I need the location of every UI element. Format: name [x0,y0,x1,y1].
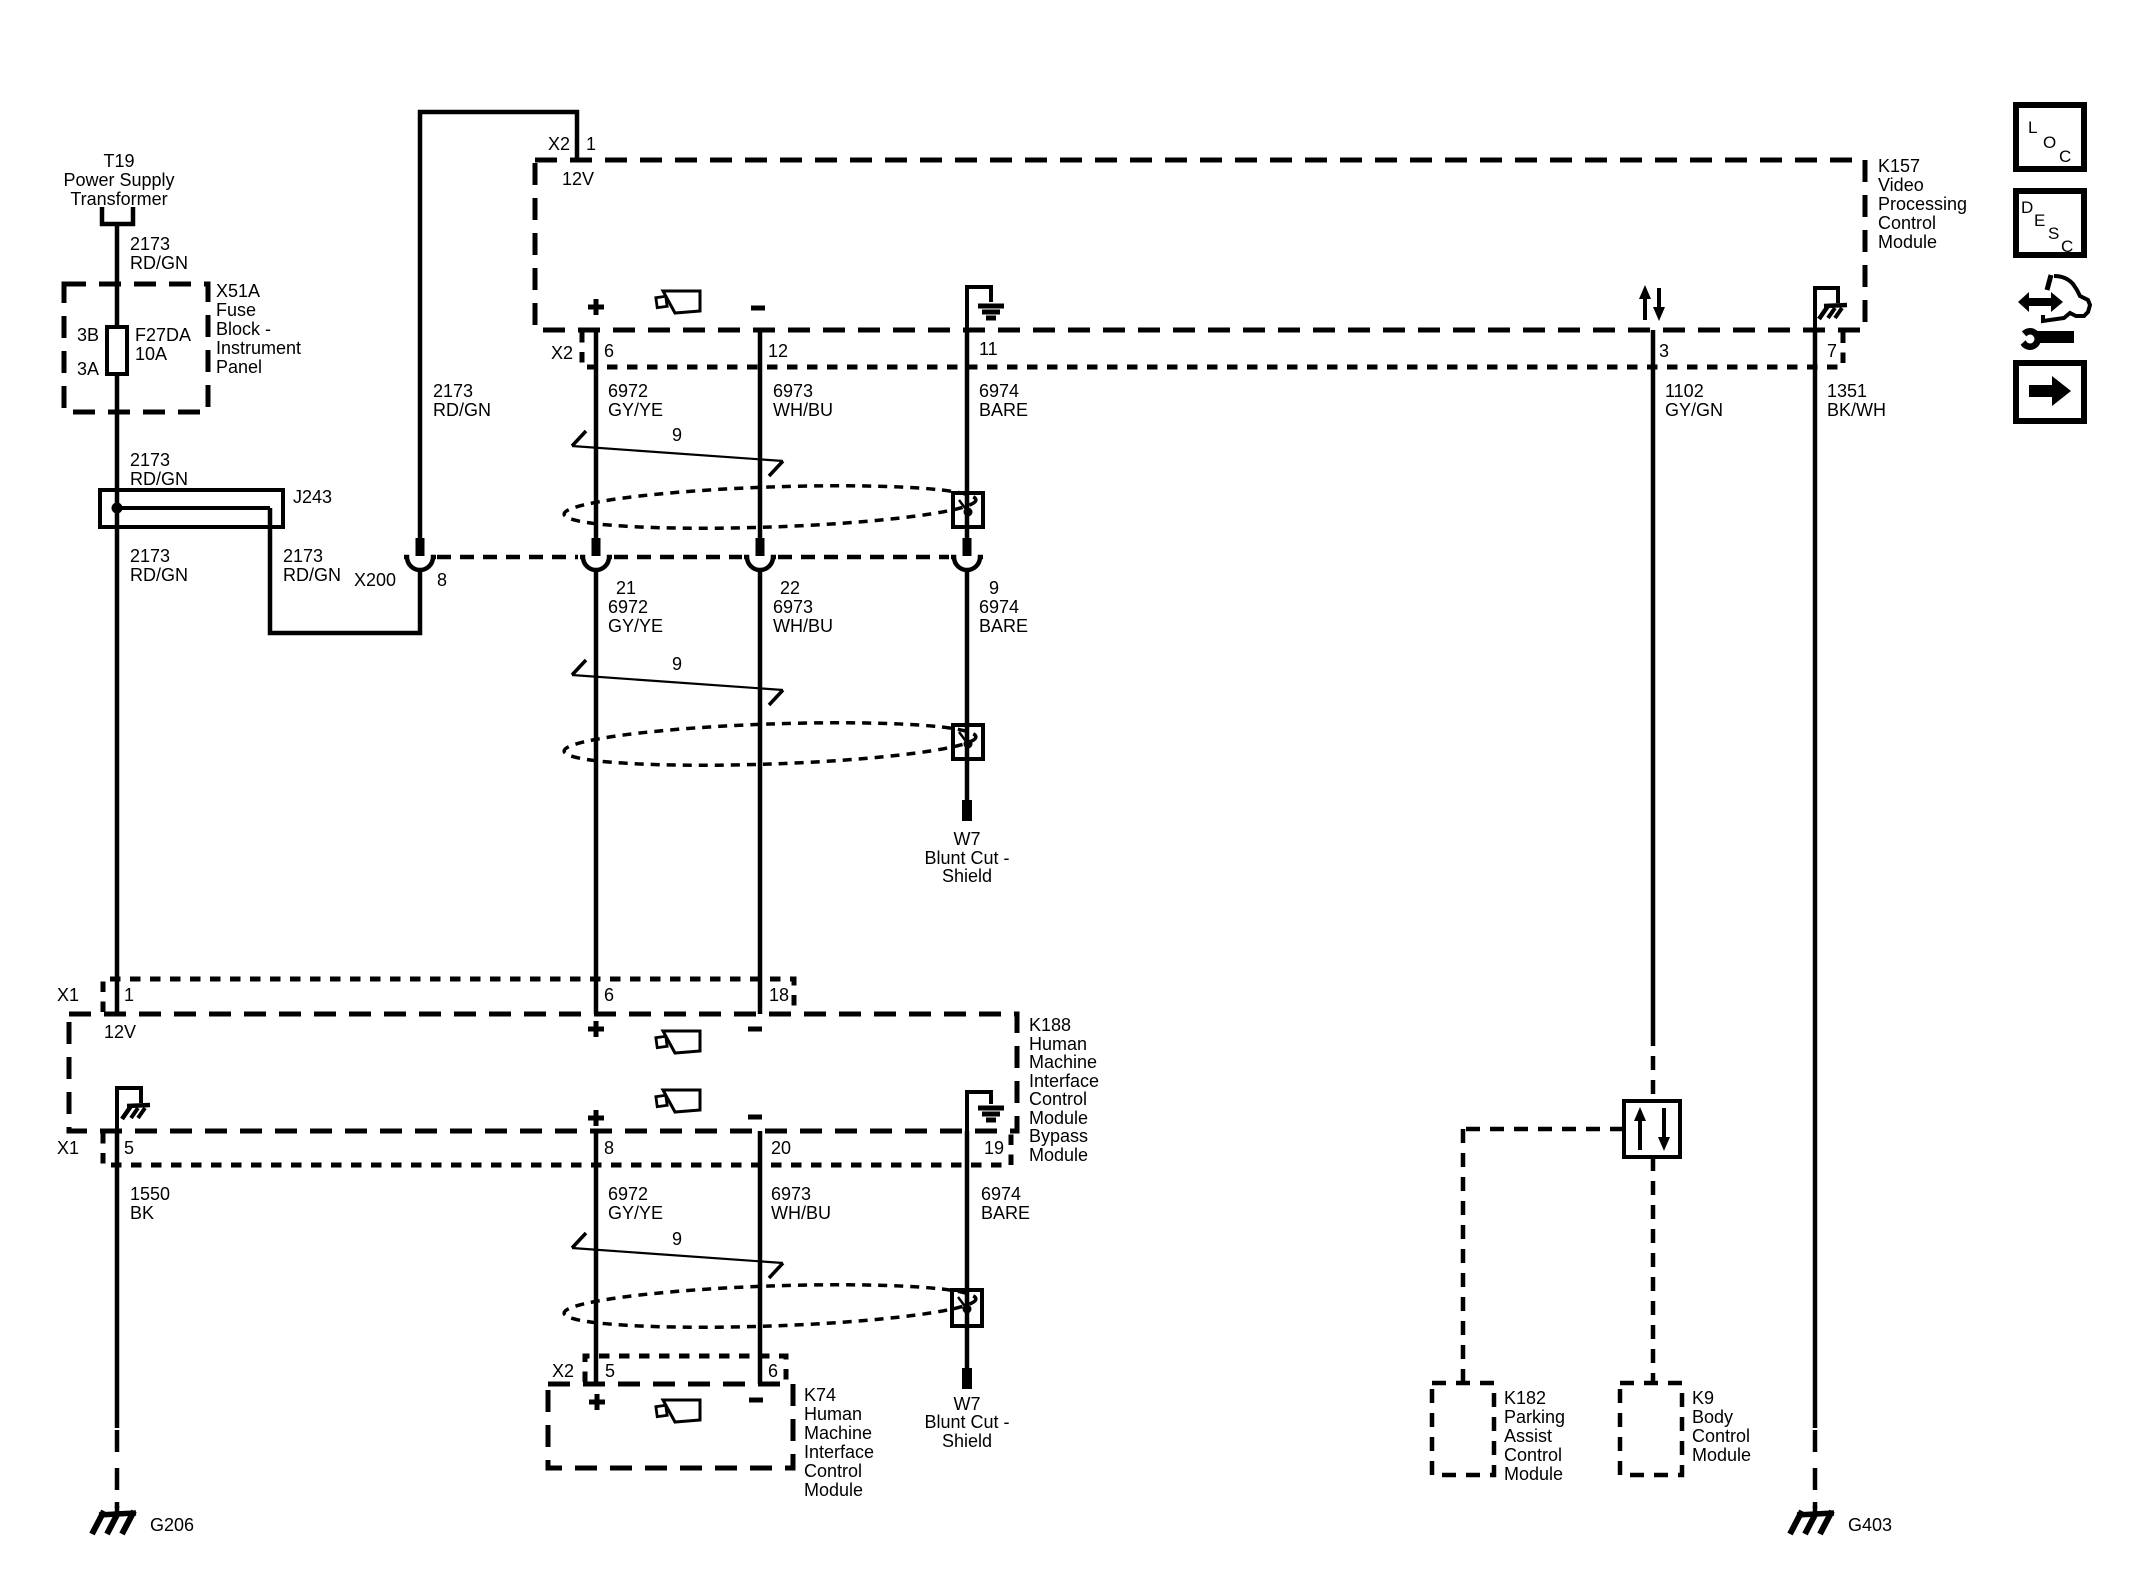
chassis ground at K188 X1 pin 5 [117,1088,150,1131]
K188 pin 8 (+) [588,1110,604,1126]
fuse F27DA 10A [77,325,191,379]
svg-text:Instrument: Instrument [216,338,301,358]
wire 6972 GY/YE X200 pin 21 to K188 X1 pin 6 [596,570,663,1014]
wire 6974 BARE K157 pin 11 to X200 pin 9 [967,330,1028,538]
wire 6973 WH/BU K157 pin 12 to X200 pin 22 [760,330,833,538]
twisted pair mark middle [572,654,783,705]
svg-text:6974: 6974 [979,597,1019,617]
svg-text:Video: Video [1878,175,1924,195]
svg-text:Machine: Machine [1029,1052,1097,1072]
svg-text:1550: 1550 [130,1184,170,1204]
module K157 Video Processing Control Module [535,156,1967,330]
bidirectional signal box on 1102 wire [1624,1101,1680,1157]
svg-text:8: 8 [604,1138,614,1158]
svg-text:2173: 2173 [130,450,170,470]
twisted pair mark upper [572,425,783,476]
svg-text:Transformer: Transformer [70,189,167,209]
fuse block X51A dashed box [64,281,301,412]
svg-text:Human: Human [1029,1034,1087,1054]
svg-text:18: 18 [769,985,789,1005]
shield termination box lower [952,1290,982,1326]
camera icon K188 upper [656,1031,700,1053]
dashed branch to K182 [1463,1129,1624,1383]
svg-text:J243: J243 [293,487,332,507]
wire 2173 RD/GN fuse to J243 [117,372,188,508]
svg-text:2173: 2173 [130,234,170,254]
svg-text:Human: Human [804,1404,862,1424]
icon vehicle with arrows and wrench [2008,275,2090,351]
svg-text:Parking: Parking [1504,1407,1565,1427]
connector X200 pin 21 [580,538,636,598]
svg-text:6974: 6974 [981,1184,1021,1204]
svg-text:BARE: BARE [981,1203,1030,1223]
svg-text:WH/BU: WH/BU [773,616,833,636]
svg-text:2173: 2173 [130,546,170,566]
svg-text:X2: X2 [548,134,570,154]
svg-text:G403: G403 [1848,1515,1892,1535]
svg-text:O: O [2043,133,2056,152]
svg-text:6: 6 [604,341,614,361]
wire 6973 WH/BU X200 pin 22 to K188 X1 pin 18 [760,570,833,1014]
K157 X2 pin 6 (+) [588,299,614,361]
shield ellipse middle [563,717,976,771]
dashed wire from signal box down to K9 [1651,1157,1656,1383]
svg-text:Module: Module [1029,1145,1088,1165]
svg-text:WH/BU: WH/BU [771,1203,831,1223]
transformer T19 [63,151,174,224]
X200 dashed harness line [437,555,949,560]
splice pack J243 [100,487,332,527]
svg-text:6972: 6972 [608,381,648,401]
icon box LOC [2016,105,2084,169]
wire 2173 RD/GN T19 to fuse [117,224,188,330]
module K188 HMI Control Module Bypass Module [69,1014,1099,1165]
wire 6973 WH/BU K188 pin 20 to K74 X2 pin 6 [760,1131,831,1384]
svg-text:Module: Module [804,1480,863,1500]
svg-text:2173: 2173 [283,546,323,566]
svg-text:X1: X1 [57,985,79,1005]
svg-text:2173: 2173 [433,381,473,401]
svg-text:Module: Module [1692,1445,1751,1465]
connector X2 of K157 (fine dotted line) [551,332,1843,367]
svg-text:Fuse: Fuse [216,300,256,320]
blunt cut terminal W7 upper [924,800,1009,886]
svg-text:Blunt Cut -: Blunt Cut - [924,1412,1009,1432]
svg-text:Machine: Machine [804,1423,872,1443]
twisted pair mark lower [572,1229,783,1278]
module K74 HMI Control Module [548,1384,874,1500]
svg-text:X1: X1 [57,1138,79,1158]
K74 pin 5 (+) [589,1394,605,1410]
svg-text:9: 9 [672,425,682,445]
signal ground at K157 X2 pin 11 [967,287,1004,359]
camera icon K188 lower [656,1090,700,1112]
svg-text:Control: Control [1029,1089,1087,1109]
shield termination box upper [953,493,983,527]
connector X2 of K74 (fine dotted line) [552,1356,786,1382]
svg-text:1: 1 [586,134,596,154]
svg-text:Block -: Block - [216,319,271,339]
svg-text:12: 12 [768,341,788,361]
svg-text:3: 3 [1659,341,1669,361]
shield ellipse lower [563,1279,976,1333]
svg-text:1351: 1351 [1827,381,1867,401]
svg-text:Blunt Cut -: Blunt Cut - [924,848,1009,868]
svg-text:Shield: Shield [942,1431,992,1451]
svg-text:F27DA: F27DA [135,325,191,345]
svg-text:Assist: Assist [1504,1426,1552,1446]
svg-text:10A: 10A [135,344,167,364]
svg-text:9: 9 [672,654,682,674]
svg-text:T19: T19 [103,151,134,171]
svg-text:K9: K9 [1692,1388,1714,1408]
svg-text:D: D [2021,198,2033,217]
svg-text:Control: Control [804,1461,862,1481]
svg-text:RD/GN: RD/GN [130,469,188,489]
connector X200 pin 8 [354,538,447,590]
svg-text:Control: Control [1878,213,1936,233]
svg-text:RD/GN: RD/GN [130,565,188,585]
svg-text:Module: Module [1029,1108,1088,1128]
svg-text:K157: K157 [1878,156,1920,176]
svg-text:K188: K188 [1029,1015,1071,1035]
svg-text:6973: 6973 [773,597,813,617]
wire 2173 RD/GN X200 pin 8 up to K157 X2 pin 1 [420,112,596,538]
svg-text:20: 20 [771,1138,791,1158]
svg-text:Interface: Interface [804,1442,874,1462]
svg-text:11: 11 [979,339,998,359]
svg-text:5: 5 [124,1138,134,1158]
K188 pin 20 (-) [748,1115,762,1120]
svg-text:Control: Control [1692,1426,1750,1446]
svg-text:Shield: Shield [942,866,992,886]
ground G403 [1790,1502,1892,1535]
connector X200 pin 9 [951,538,999,598]
connector X1 of K188 top (fine dotted line) [57,979,794,1012]
up/down arrows at K157 X2 pin 3 [1639,285,1669,361]
svg-text:BARE: BARE [979,400,1028,420]
svg-text:Bypass: Bypass [1029,1126,1088,1146]
svg-text:6: 6 [768,1361,778,1381]
svg-text:19: 19 [984,1138,1004,1158]
camera icon K74 [656,1400,700,1422]
wire 1102 GY/GN K157 pin 3 down [1653,330,1723,1101]
svg-text:21: 21 [616,578,636,598]
signal ground at K188 X1 pin 19 [967,1092,1004,1131]
svg-text:X2: X2 [551,343,573,363]
connector X1 of K188 bottom (fine dotted line) [57,1133,1011,1165]
svg-text:WH/BU: WH/BU [773,400,833,420]
wire 6974 BARE K188 pin 19 to W7 blunt cut lower [967,1131,1030,1368]
svg-text:7: 7 [1827,341,1837,361]
K157 X2 pin 12 (-) [751,308,788,361]
svg-text:9: 9 [672,1229,682,1249]
svg-text:9: 9 [989,578,999,598]
wire 2173 RD/GN J243 to X200 pin 8 [270,508,420,633]
svg-text:GY/GN: GY/GN [1665,400,1723,420]
svg-text:G206: G206 [150,1515,194,1535]
wire 6972 GY/YE K188 pin 8 to K74 X2 pin 5 [596,1131,663,1384]
icon box arrow [2016,363,2084,421]
K188 pin 6 (+) [588,1021,604,1037]
svg-text:1: 1 [124,985,134,1005]
svg-text:Panel: Panel [216,357,262,377]
svg-text:Control: Control [1504,1445,1562,1465]
K74 pin 6 (-) [749,1398,763,1403]
svg-text:3B: 3B [77,325,99,345]
svg-text:6973: 6973 [771,1184,811,1204]
svg-text:1102: 1102 [1665,381,1704,401]
wire 6974 BARE X200 pin 9 to W7 blunt cut [967,570,1028,800]
camera icon in K157 [656,291,700,313]
svg-text:BARE: BARE [979,616,1028,636]
wire 2173 RD/GN J243 down to K188 X1 pin 1 [117,508,188,1014]
ground G206 [92,1502,194,1535]
svg-text:Body: Body [1692,1407,1733,1427]
svg-text:S: S [2048,224,2059,243]
svg-text:W7: W7 [954,1394,981,1414]
svg-text:BK/WH: BK/WH [1827,400,1886,420]
svg-text:6972: 6972 [608,597,648,617]
svg-text:GY/YE: GY/YE [608,616,663,636]
svg-text:Power Supply: Power Supply [63,170,174,190]
svg-text:K182: K182 [1504,1388,1546,1408]
wire 6972 GY/YE K157 pin 6 to X200 pin 21 [596,330,663,538]
svg-text:12V: 12V [562,169,594,189]
svg-text:6: 6 [604,985,614,1005]
K188 pin 18 (-) [748,1027,762,1032]
svg-text:RD/GN: RD/GN [130,253,188,273]
svg-text:K74: K74 [804,1385,836,1405]
svg-text:X51A: X51A [216,281,260,301]
svg-text:L: L [2028,118,2037,137]
svg-text:5: 5 [605,1361,615,1381]
svg-text:Processing: Processing [1878,194,1967,214]
module K182 Parking Assist Control Module [1432,1383,1565,1484]
wire 1351 BK/WH K157 pin 7 down to G403 [1815,330,1886,1508]
svg-text:X2: X2 [552,1361,574,1381]
svg-text:C: C [2059,147,2071,166]
svg-text:GY/YE: GY/YE [608,400,663,420]
svg-text:6972: 6972 [608,1184,648,1204]
chassis ground at K157 X2 pin 7 [1815,288,1847,361]
svg-text:22: 22 [780,578,800,598]
svg-text:12V: 12V [104,1022,136,1042]
svg-text:X200: X200 [354,570,396,590]
blunt cut terminal W7 lower [924,1368,1009,1451]
svg-text:E: E [2034,211,2045,230]
svg-text:3A: 3A [77,359,99,379]
svg-text:Module: Module [1504,1464,1563,1484]
connector X200 pin 22 [744,538,800,598]
svg-text:Interface: Interface [1029,1071,1099,1091]
svg-text:GY/YE: GY/YE [608,1203,663,1223]
shield termination box middle [953,725,983,759]
svg-text:RD/GN: RD/GN [283,565,341,585]
shield ellipse upper [563,480,976,534]
svg-text:6974: 6974 [979,381,1019,401]
icon box DESC [2016,191,2084,256]
svg-text:RD/GN: RD/GN [433,400,491,420]
svg-text:6973: 6973 [773,381,813,401]
svg-text:8: 8 [437,570,447,590]
svg-text:W7: W7 [954,829,981,849]
svg-text:Module: Module [1878,232,1937,252]
module K9 Body Control Module [1620,1383,1751,1475]
svg-text:BK: BK [130,1203,154,1223]
svg-text:C: C [2061,237,2073,256]
wire 1550 BK K188 pin 5 to G206 [117,1131,170,1508]
